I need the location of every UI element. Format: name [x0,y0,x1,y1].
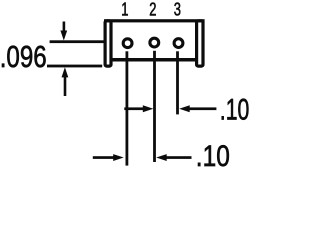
svg-text:.10: .10 [220,93,250,126]
svg-text:.096: .096 [0,39,47,74]
.096 lower extension line [47,65,102,68]
component body bottom edge [110,58,198,62]
.096 up arrow tail [64,76,67,96]
right end cap [197,21,203,66]
.096 up arrowhead [62,67,69,77]
lower .10 dimension left tail [93,156,115,159]
svg-text:2: 2 [149,0,156,20]
pin 2 lead line [153,51,156,162]
pin 1 lead line [126,51,129,165]
svg-text:3: 3 [174,0,181,20]
.096 upper extension line [50,40,104,43]
pin 3 lead line [176,51,179,114]
upper .10 dimension right tail [189,107,217,110]
pin 1 terminal circle [123,39,132,48]
lower .10 dimension right tail [166,156,192,159]
component body top edge [104,19,205,22]
lower .10 dimension right arrowhead (points right at pin 1) [113,154,124,161]
upper .10 dimension left arrowhead (points left at pin 3) [179,105,190,112]
.096 down arrowhead [60,31,67,41]
lower .10 dimension left arrowhead (points left at pin 2) [156,154,167,161]
pin 2 terminal circle [150,38,159,47]
upper .10 dimension left tail [124,107,143,110]
upper .10 dimension right arrowhead (points right at pin 2) [143,105,154,112]
svg-text:.10: .10 [196,140,230,173]
left end cap [105,21,111,66]
pin 3 terminal circle [174,39,183,48]
svg-text:1: 1 [121,0,128,20]
.096 down arrow tail [63,22,66,33]
